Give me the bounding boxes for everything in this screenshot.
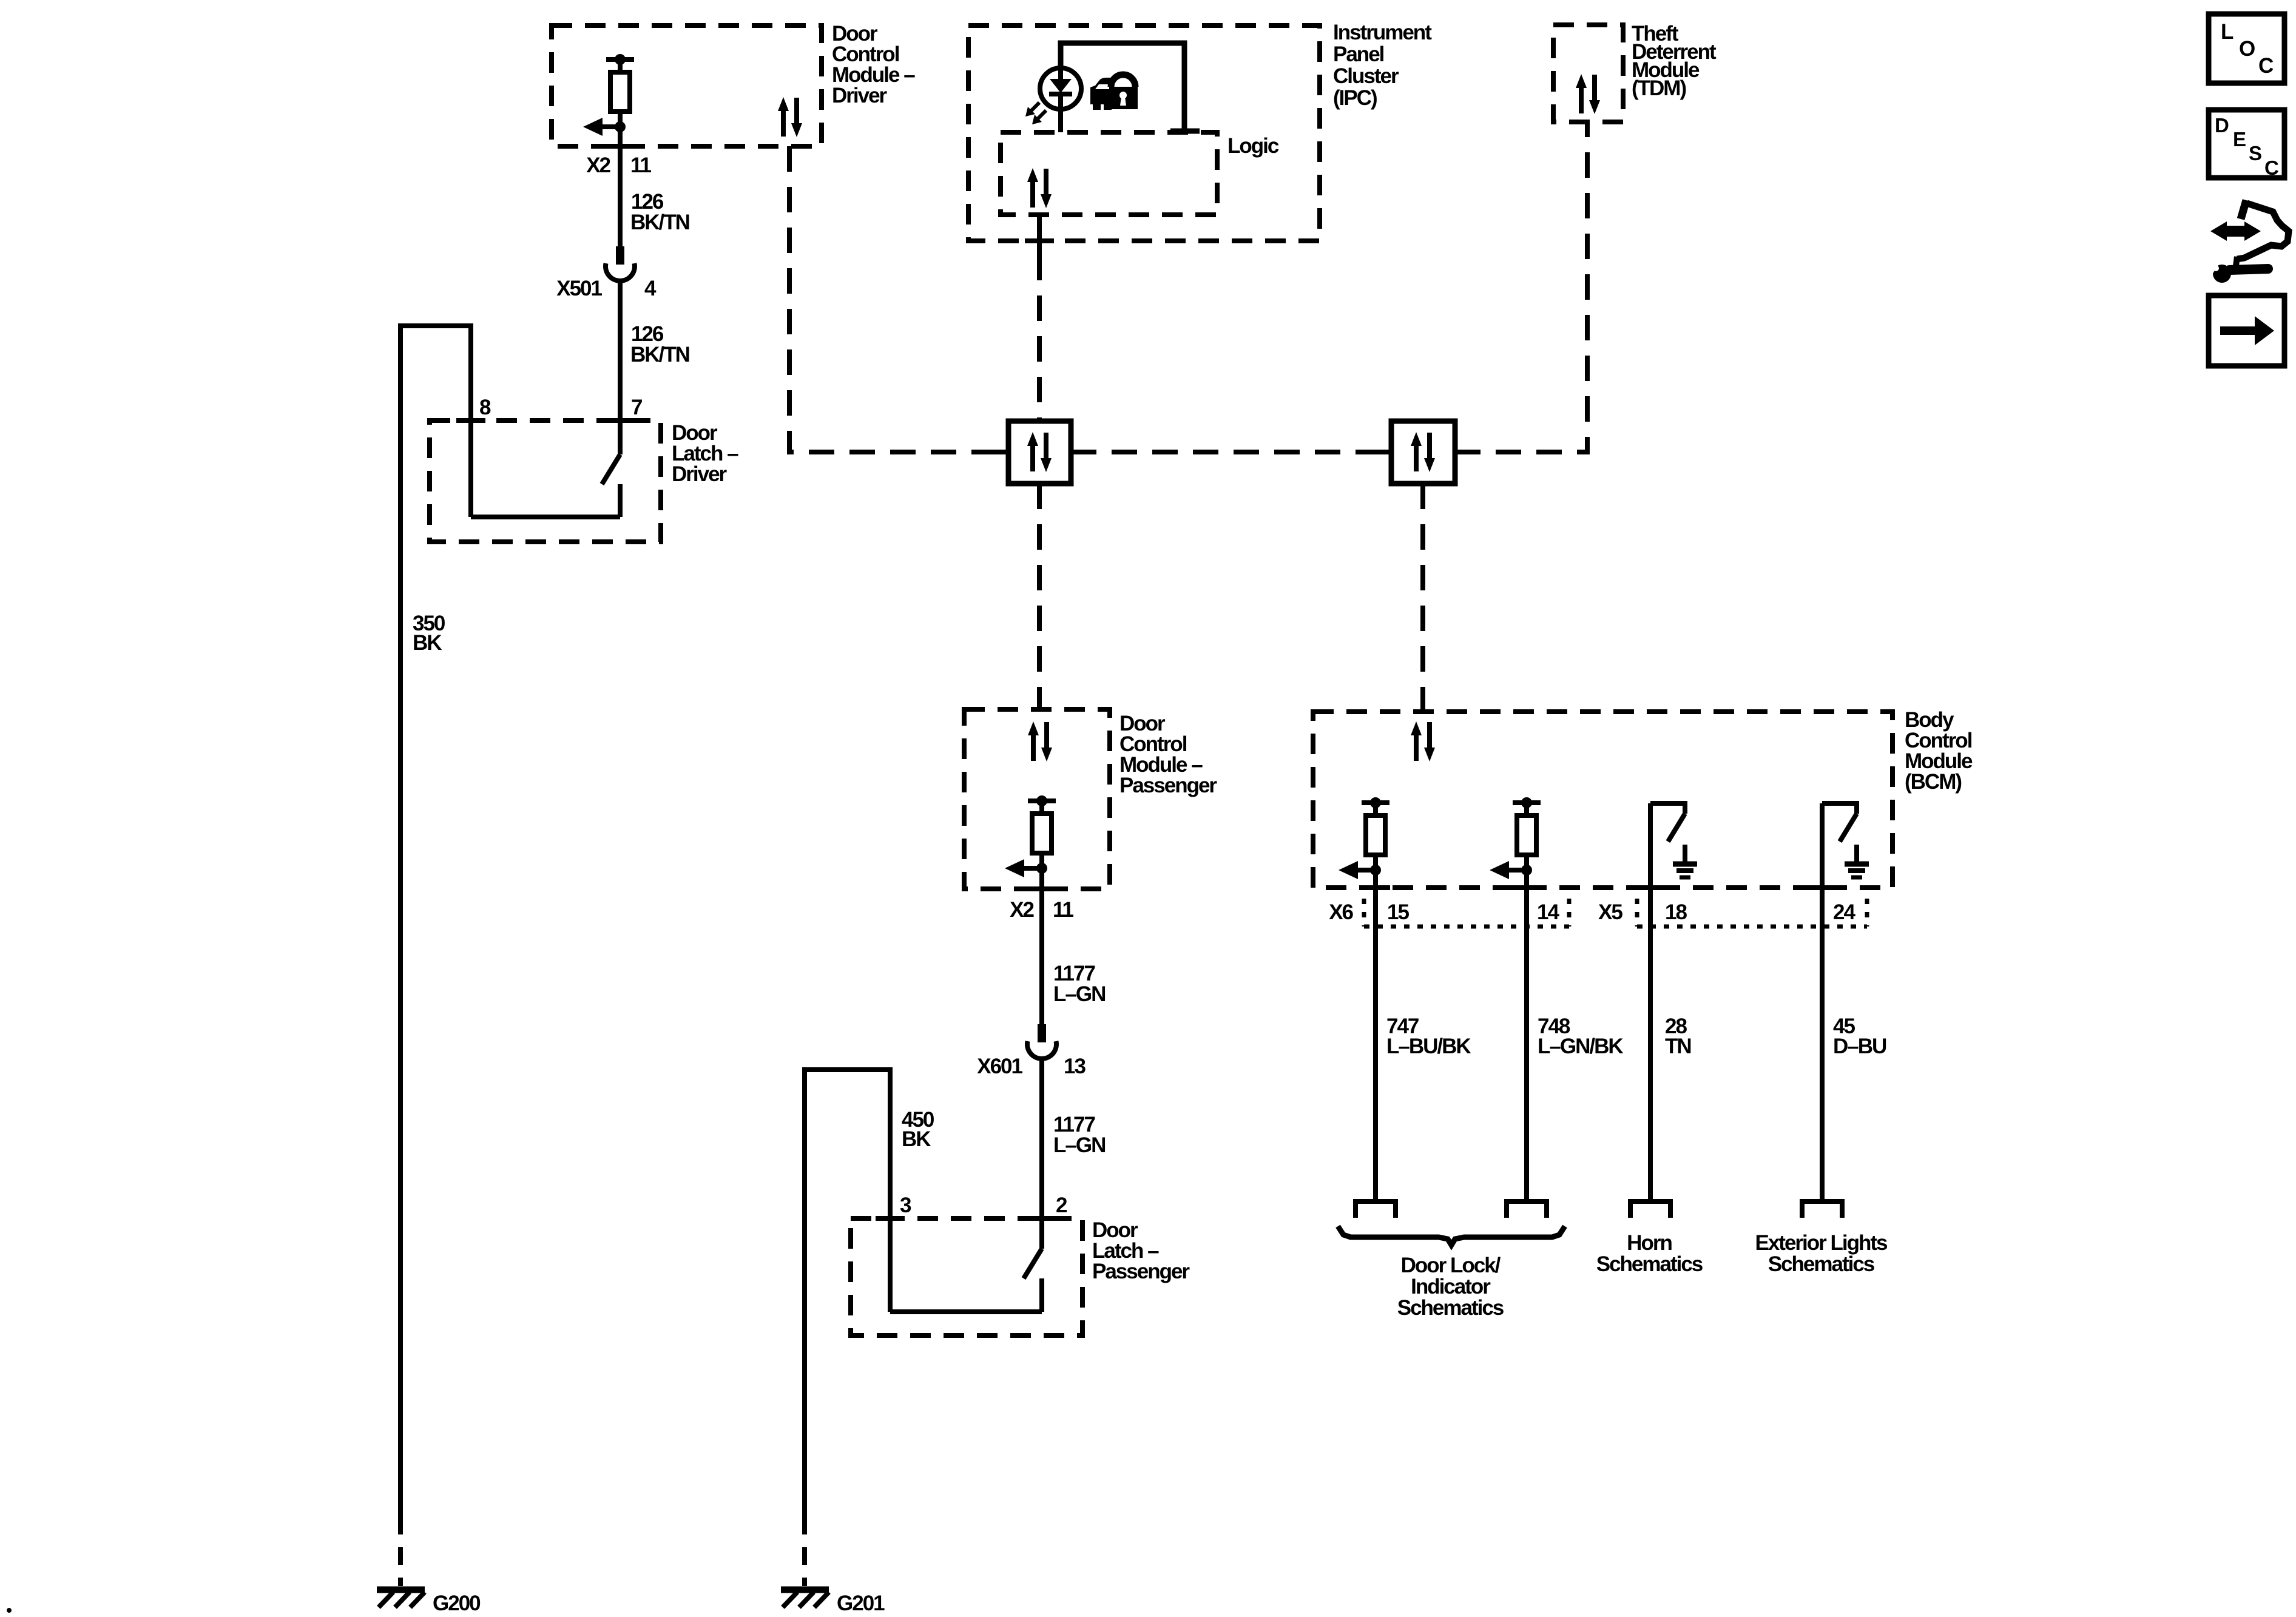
DESC legend box [2209, 110, 2284, 179]
wire label 126 BK/TN lower [630, 322, 689, 366]
svg-text:(TDM): (TDM) [1632, 76, 1686, 100]
svg-text:11: 11 [1053, 898, 1074, 922]
svg-text:Schematics: Schematics [1768, 1252, 1875, 1276]
wire pin 18 [1648, 803, 1653, 1201]
serial data junction box 1 [1008, 421, 1071, 484]
svg-text:BK: BK [413, 631, 442, 655]
wire pin 11 X2 to X501 [618, 127, 623, 246]
wire label 1177 L-GN lower [1053, 1113, 1105, 1157]
svg-text:11: 11 [630, 154, 652, 177]
label Instrument Panel Cluster (IPC) [1333, 21, 1432, 110]
svg-text:L–GN/BK: L–GN/BK [1538, 1035, 1623, 1058]
Instrument Panel Cluster box [968, 25, 1320, 241]
svg-text:(BCM): (BCM) [1905, 770, 1961, 794]
svg-text:Passenger: Passenger [1119, 774, 1217, 797]
svg-text:L–GN: L–GN [1053, 1133, 1105, 1157]
Body Control Module box [1313, 712, 1893, 888]
wire 350 BK branch [400, 326, 471, 1517]
wire 450 BK branch [805, 1070, 890, 1517]
pin tick 7 [606, 418, 635, 423]
wire label 748 L-GN/BK [1538, 1014, 1623, 1058]
dashed serial wire bus to BCM [1420, 484, 1425, 712]
svg-text:3: 3 [900, 1193, 911, 1217]
wire label 45 D-BU [1833, 1014, 1886, 1058]
svg-text:G201: G201 [837, 1592, 885, 1615]
svg-text:X2: X2 [1010, 898, 1034, 922]
svg-text:BK/TN: BK/TN [630, 211, 689, 234]
svg-text:X6: X6 [1329, 900, 1353, 924]
loop foot on logic box [1170, 129, 1200, 134]
svg-text:BK/TN: BK/TN [630, 343, 689, 366]
resistor (passenger DCM lock indicator drive) [1005, 795, 1056, 877]
svg-text:Cluster: Cluster [1333, 64, 1399, 88]
dashed serial wire IPC to bus [1037, 255, 1042, 421]
svg-text:Exterior Lights: Exterior Lights [1755, 1231, 1888, 1255]
svg-text:X601: X601 [977, 1055, 1022, 1078]
Logic box [1001, 132, 1217, 215]
label Door Control Module - Passenger [1119, 712, 1217, 797]
connector X6 dotted band [1364, 899, 1569, 927]
connector X601 [1027, 1024, 1056, 1059]
serial data arrows in driver DCM [778, 97, 802, 137]
svg-text:Schematics: Schematics [1596, 1252, 1703, 1276]
svg-text:O: O [2239, 37, 2255, 61]
dashed ground lead G201 [802, 1517, 807, 1586]
serial data junction box 2 [1391, 421, 1455, 484]
label Door Lock Indicator Schematics [1397, 1254, 1504, 1320]
svg-text:D: D [2215, 114, 2229, 137]
svg-text:X501: X501 [556, 277, 602, 300]
svg-text:Passenger: Passenger [1092, 1260, 1190, 1283]
serial data arrows in logic box [1027, 168, 1052, 208]
svg-text:4: 4 [644, 277, 657, 300]
serial bus dashed segment to TDM riser [1455, 122, 1587, 452]
svg-text:18: 18 [1665, 900, 1687, 924]
resistor BCM pin 15 [1339, 797, 1389, 879]
svg-text:14: 14 [1537, 900, 1559, 924]
arrows in junction box 1 [1027, 432, 1052, 472]
wire label 28 TN [1665, 1014, 1691, 1058]
svg-text:Logic: Logic [1227, 134, 1279, 158]
connector X5 dotted band [1637, 899, 1867, 927]
diagnostic tool icon [2201, 200, 2289, 283]
svg-text:13: 13 [1064, 1055, 1086, 1078]
wire label 1177 L-GN upper [1053, 962, 1105, 1006]
svg-text:C: C [2264, 157, 2279, 179]
forward arrow legend box [2209, 295, 2284, 366]
svg-text:(IPC): (IPC) [1333, 86, 1377, 110]
wire pin 11 X2 to X601 [1039, 868, 1044, 1024]
switch to ground BCM pin 24 [1822, 801, 1869, 877]
svg-text:Indicator: Indicator [1411, 1275, 1491, 1298]
ground G200 [377, 1590, 425, 1607]
serial bus dashed segment middle [1071, 450, 1391, 454]
Door Control Module - Passenger box [964, 709, 1110, 889]
svg-text:Driver: Driver [832, 84, 888, 107]
serial data arrows in BCM [1411, 721, 1435, 761]
pin tick 2 [1027, 1216, 1056, 1221]
svg-text:S: S [2249, 142, 2262, 164]
wire 126 BK/TN to door latch driver [618, 280, 623, 454]
pin tick 24 [1808, 885, 1837, 890]
wire label 450 BK [902, 1108, 934, 1151]
pin tick X2-11 [606, 144, 635, 149]
svg-text:24: 24 [1833, 900, 1855, 924]
svg-text:Door Lock/: Door Lock/ [1401, 1254, 1501, 1277]
dashed ground lead G200 [398, 1517, 403, 1586]
car with padlock icon [1090, 75, 1138, 110]
off-page terminal 748 [1507, 1201, 1547, 1218]
svg-text:Driver: Driver [672, 462, 728, 486]
serial data arrows in TDM [1576, 74, 1600, 114]
Door Control Module - Driver box [552, 25, 822, 146]
off-page terminal 747 [1356, 1201, 1396, 1218]
label Door Latch - Driver [672, 421, 738, 486]
wire from logic to IPC edge [1037, 215, 1042, 255]
wire label 747 L-BU/BK [1386, 1014, 1471, 1058]
svg-text:Instrument: Instrument [1333, 21, 1432, 44]
wire label 350 BK [413, 612, 445, 655]
LED emission arrows [1025, 103, 1046, 124]
off-page terminal 28 [1630, 1201, 1670, 1218]
switch to ground BCM pin 18 [1650, 801, 1697, 877]
svg-text:E: E [2233, 128, 2246, 150]
brace door lock group [1338, 1226, 1565, 1245]
resistor (driver DCM lock indicator drive) [583, 54, 634, 136]
svg-text:8: 8 [479, 396, 491, 419]
svg-text:X2: X2 [586, 154, 610, 177]
svg-text:Schematics: Schematics [1397, 1296, 1504, 1320]
pin tick 15 [1361, 885, 1390, 890]
svg-text:7: 7 [631, 396, 642, 419]
LED indicator lamp [1040, 68, 1081, 132]
pin tick 18 [1636, 885, 1665, 890]
pin tick 8 [456, 418, 485, 423]
label Exterior Lights Schematics [1755, 1231, 1888, 1276]
label Body Control Module (BCM) [1905, 708, 1973, 794]
svg-text:2: 2 [1056, 1193, 1067, 1217]
resistor BCM pin 14 [1490, 797, 1541, 879]
svg-text:G200: G200 [433, 1592, 481, 1615]
pin tick 14 [1512, 885, 1541, 890]
label Door Control Module - Driver [832, 22, 915, 107]
indicator supply loop wire [1061, 43, 1184, 130]
LOC legend box [2209, 14, 2284, 83]
arrows in junction box 2 [1411, 432, 1435, 472]
label Door Latch - Passenger [1092, 1218, 1190, 1283]
bus stub at junction box 1 left [994, 450, 1008, 454]
door latch driver switch [471, 454, 620, 517]
svg-text:Horn: Horn [1627, 1231, 1672, 1255]
serial data arrows in passenger DCM [1028, 721, 1052, 761]
svg-text:X5: X5 [1598, 900, 1622, 924]
pin tick 3 [876, 1216, 905, 1221]
ground G201 [781, 1590, 829, 1607]
svg-text:L–GN: L–GN [1053, 982, 1105, 1006]
connector X501 [606, 246, 635, 281]
svg-text:15: 15 [1387, 900, 1409, 924]
Door Latch - Driver box [430, 420, 661, 542]
wire pin 14 [1524, 870, 1529, 1201]
bus stub at junction box 2 left [1377, 450, 1391, 454]
wire pin 24 [1820, 803, 1825, 1201]
svg-text:C: C [2258, 54, 2274, 78]
pin tick IPC bottom [1025, 238, 1054, 243]
wire 1177 L-GN to door latch passenger [1039, 1058, 1044, 1249]
door latch passenger switch [890, 1249, 1042, 1312]
wire label 126 BK/TN upper [630, 190, 689, 234]
label Theft Deterrent Module (TDM) [1632, 22, 1717, 100]
dashed drop from driver DCM to serial bus [789, 146, 1008, 452]
svg-text:D–BU: D–BU [1833, 1035, 1886, 1058]
pin tick passenger X2-11 [1027, 886, 1056, 891]
stray dot bottom-left [7, 1608, 12, 1613]
svg-text:TN: TN [1665, 1035, 1691, 1058]
svg-text:L: L [2221, 20, 2234, 44]
label Horn Schematics [1596, 1231, 1703, 1276]
dashed serial wire bus to passenger DCM [1037, 484, 1042, 709]
svg-text:L–BU/BK: L–BU/BK [1386, 1035, 1471, 1058]
off-page terminal 45 [1802, 1201, 1842, 1218]
Theft Deterrent Module box [1553, 25, 1623, 122]
wire pin 15 [1373, 870, 1378, 1201]
svg-text:BK: BK [902, 1127, 931, 1151]
Door Latch - Passenger box [851, 1218, 1082, 1335]
svg-text:Panel: Panel [1333, 42, 1384, 66]
